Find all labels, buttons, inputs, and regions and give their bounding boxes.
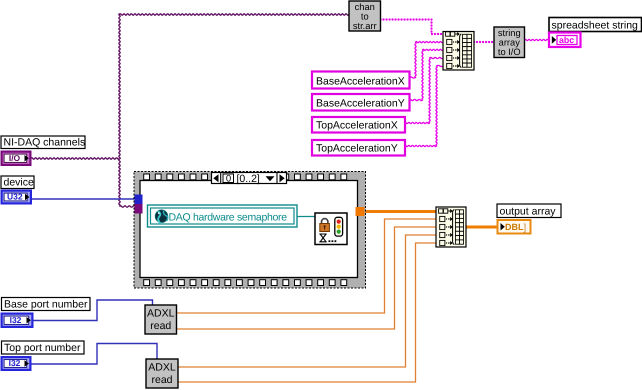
svg-text:read: read <box>151 374 172 386</box>
svg-text:device: device <box>4 177 35 189</box>
svg-text:NI-DAQ channels: NI-DAQ channels <box>4 137 86 149</box>
svg-text:0: 0 <box>226 174 231 185</box>
svg-text:to I/O: to I/O <box>498 47 521 57</box>
svg-text:I32: I32 <box>10 315 22 325</box>
svg-text:spreadsheet string: spreadsheet string <box>552 20 639 32</box>
svg-text:U32: U32 <box>7 191 23 201</box>
svg-text:output array: output array <box>500 206 557 218</box>
svg-text:chan: chan <box>355 2 375 12</box>
svg-text:DBL: DBL <box>505 222 524 232</box>
svg-text:I32: I32 <box>9 358 21 368</box>
svg-text:[0..2]: [0..2] <box>237 173 260 185</box>
svg-text:I/O: I/O <box>9 153 21 163</box>
svg-text:TopAccelerationY: TopAccelerationY <box>316 143 398 155</box>
svg-text:Base port number: Base port number <box>4 299 88 311</box>
svg-text:Top port number: Top port number <box>4 342 81 354</box>
svg-text:BaseAccelerationX: BaseAccelerationX <box>316 76 405 88</box>
svg-text:read: read <box>150 320 171 332</box>
svg-text:abc: abc <box>559 35 574 45</box>
svg-text:array: array <box>499 38 521 48</box>
svg-text:BaseAccelerationY: BaseAccelerationY <box>316 98 405 110</box>
svg-text:DAQ hardware semaphore: DAQ hardware semaphore <box>169 212 288 224</box>
svg-text:string: string <box>498 28 521 38</box>
svg-text:str.arr: str.arr <box>353 21 377 31</box>
svg-text:to: to <box>361 12 369 22</box>
svg-text:TopAccelerationX: TopAccelerationX <box>316 120 398 132</box>
svg-text:ADXL: ADXL <box>148 362 176 374</box>
svg-text:]: ] <box>524 222 527 233</box>
svg-text:ADXL: ADXL <box>147 308 175 320</box>
